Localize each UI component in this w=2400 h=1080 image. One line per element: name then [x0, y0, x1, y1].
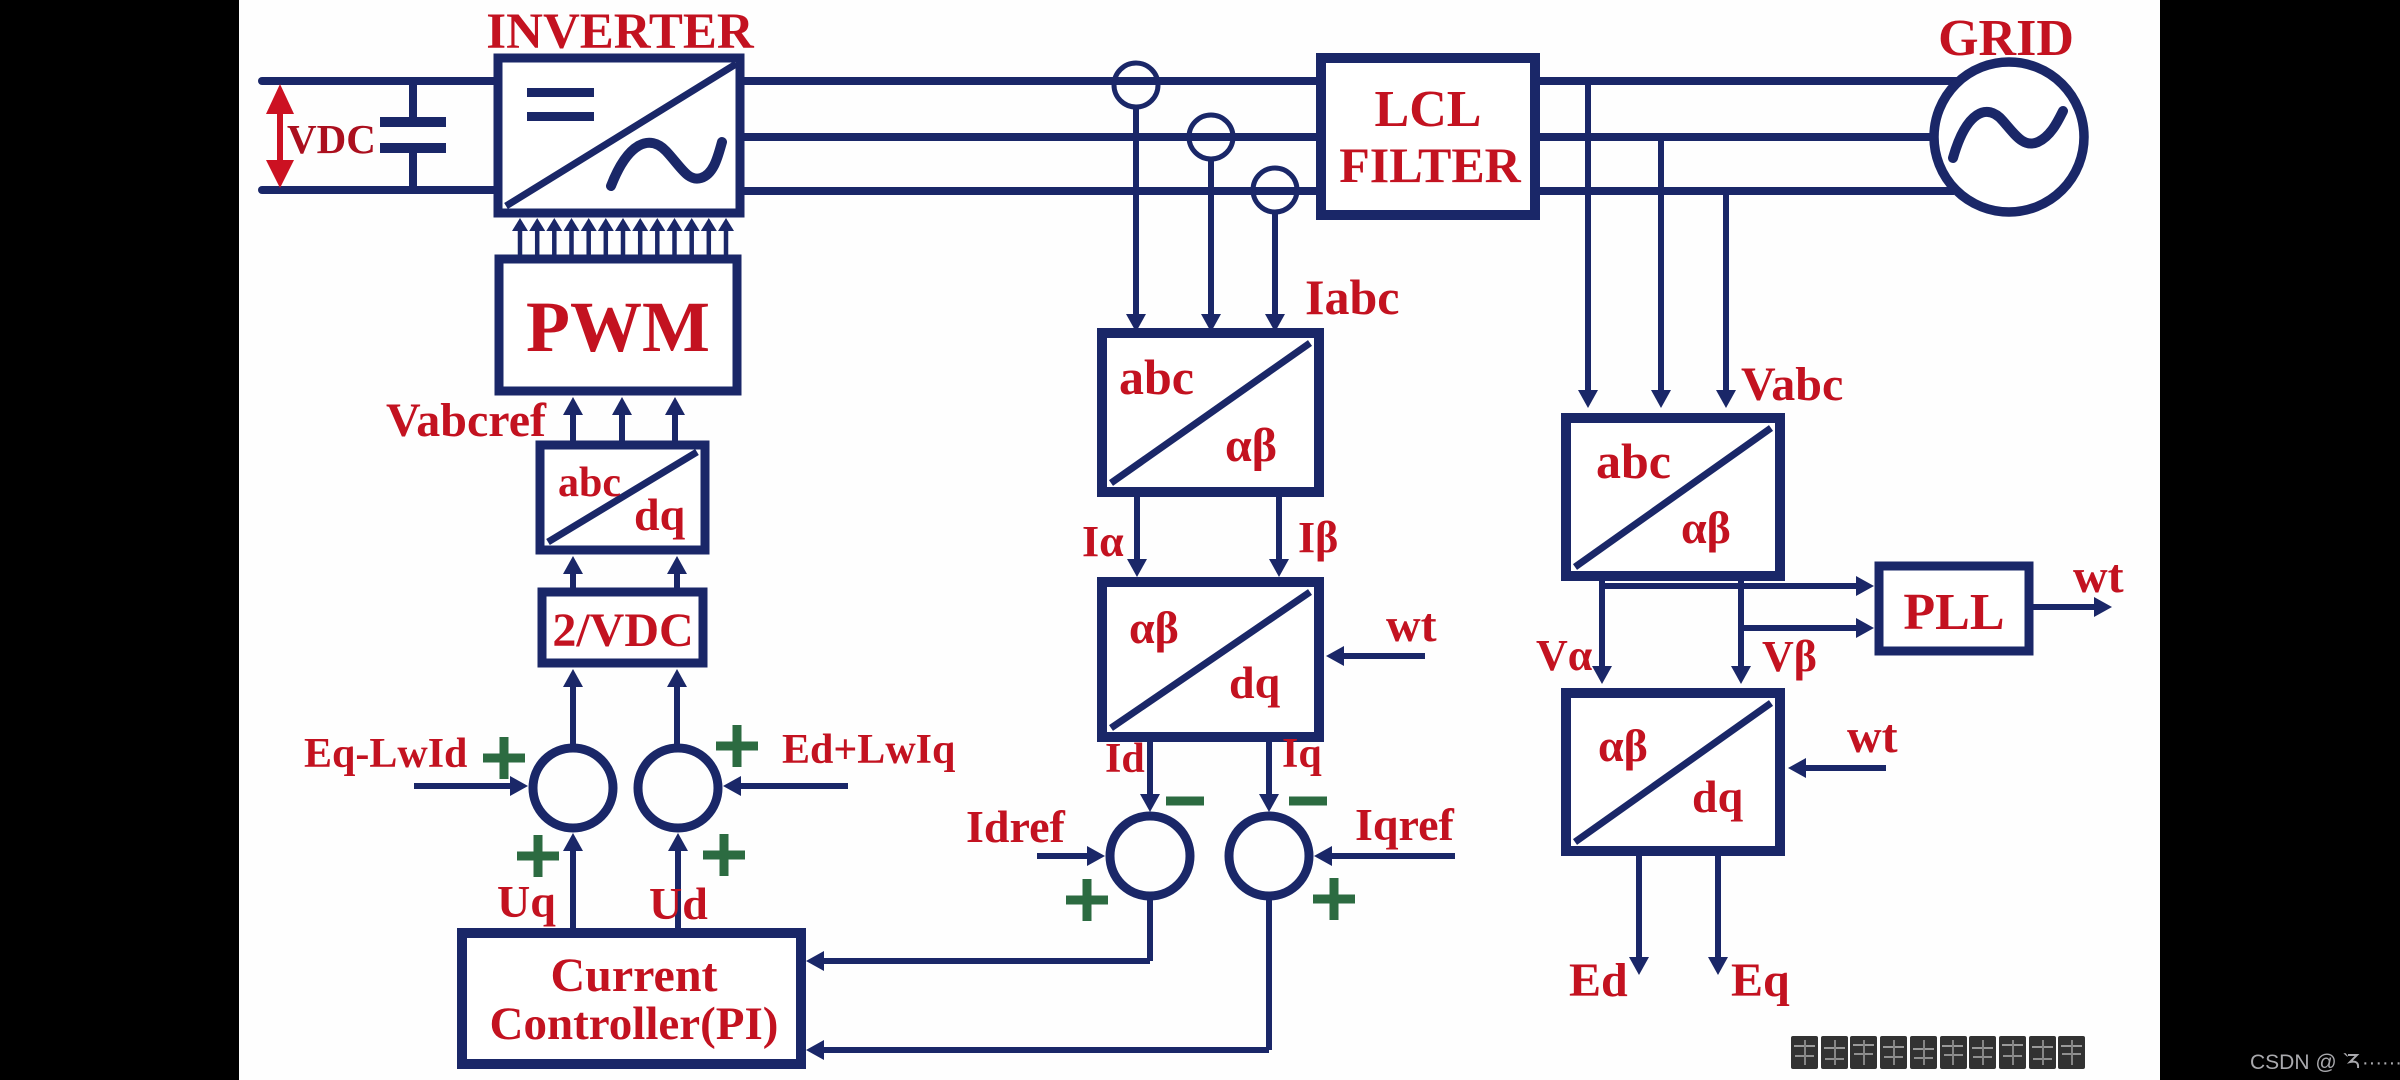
svg-text:abc: abc — [558, 460, 621, 506]
wire: Ic measurement drop to abc/alphabeta — [1265, 212, 1285, 332]
wire: PWM gate drive arrows into inverter — [512, 218, 734, 259]
svg-text:Current: Current — [550, 949, 717, 1002]
svg-text:Controller(PI): Controller(PI) — [490, 998, 779, 1050]
svg-text:Iabc: Iabc — [1305, 269, 1399, 325]
inverter U1 block — [498, 58, 740, 213]
gain block 2/VDC — [542, 592, 703, 663]
node: plus sign at Iqref junction — [1313, 895, 1355, 904]
svg-text:dq: dq — [1692, 771, 1744, 822]
wire: Va tap from phase A bus — [1578, 81, 1598, 408]
svg-text:abc: abc — [1596, 433, 1671, 489]
svg-text:2/VDC: 2/VDC — [552, 604, 693, 657]
current sensor CT1 on phase A — [1114, 63, 1158, 107]
transform block abc to alphabeta (voltage path) — [1566, 418, 1780, 576]
svg-text:Ed+LwIq: Ed+LwIq — [782, 727, 955, 773]
wire: Uq arrow from controller into S1 — [570, 851, 576, 933]
transform block alphabeta to dq (voltage path) — [1566, 693, 1780, 851]
capacitor C dc-link — [380, 81, 446, 191]
wire: Valpha branch to PLL — [1602, 583, 1856, 589]
node: black pillarbox right — [2160, 0, 2400, 1080]
wire: Id error feedback to controller — [806, 896, 1150, 971]
svg-text:wt: wt — [2073, 550, 2124, 603]
node: CSDN watermark glyph blocks (chinese caption) — [1791, 1036, 2085, 1069]
svg-text:FILTER: FILTER — [1339, 137, 1521, 193]
svg-text:INVERTER: INVERTER — [486, 4, 755, 60]
wire: Ibeta arrow — [1276, 492, 1282, 559]
wire: Vbeta arrow down — [1738, 576, 1744, 666]
summing junction S1 (Uq) — [533, 748, 613, 828]
current sensor CT3 on phase C — [1253, 168, 1297, 212]
svg-text:αβ: αβ — [1225, 419, 1277, 472]
summing junction S3 (Idref) — [1110, 816, 1190, 896]
svg-text:Iβ: Iβ — [1298, 513, 1338, 562]
wire: Iq error feedback to controller — [806, 896, 1269, 1060]
wire: Ib measurement drop to abc/alphabeta — [1201, 159, 1221, 332]
node: black pillarbox left — [0, 0, 239, 1080]
wire: phase C bus from inverter to grid — [740, 187, 1954, 195]
current sensor CT2 on phase B — [1189, 115, 1233, 159]
svg-text:Iq: Iq — [1282, 731, 1322, 777]
wire: Idref input arrow — [1037, 853, 1087, 859]
svg-text:wt: wt — [1847, 710, 1898, 763]
PWM block — [499, 259, 737, 391]
wire: wt arrow into voltage dq transform — [1806, 765, 1886, 771]
wire: DC bus positive — [262, 77, 502, 85]
wire: Iq arrow into Iqref junction — [1266, 737, 1272, 794]
svg-text:Eq: Eq — [1731, 954, 1790, 1007]
svg-text:Idref: Idref — [966, 801, 1065, 852]
svg-text:Eq-LwId: Eq-LwId — [304, 731, 467, 777]
wire: arrows from summing junctions to 2/VDC — [563, 669, 687, 744]
node: minus sign at Idref junction — [1166, 797, 1204, 806]
node: plus sign at S2 upper input — [716, 742, 758, 751]
svg-text:dq: dq — [634, 489, 686, 540]
wire: Vc tap from phase C bus — [1716, 191, 1736, 408]
summing junction S4 (Iqref) — [1229, 816, 1309, 896]
wire: Id arrow into Idref junction — [1147, 737, 1153, 794]
svg-text:Vabcref: Vabcref — [386, 394, 547, 447]
wire: Vbeta branch to PLL — [1741, 625, 1856, 631]
svg-text:······: ······ — [2362, 1052, 2400, 1074]
svg-text:PWM: PWM — [526, 287, 710, 367]
wire: Ia measurement drop to abc/alphabeta — [1126, 107, 1146, 332]
svg-text:Vβ: Vβ — [1762, 632, 1817, 681]
wire: wt output arrow from PLL — [2029, 604, 2094, 610]
wire: wt arrow into current dq transform — [1344, 653, 1425, 659]
wire: Eq output arrow — [1715, 851, 1721, 957]
wire: Vb tap from phase B bus — [1651, 137, 1671, 408]
svg-text:Ed: Ed — [1569, 954, 1628, 1007]
svg-text:PLL: PLL — [1903, 584, 2004, 641]
summing junction S2 (Ud) — [638, 748, 718, 828]
wire: arrows from 2/VDC to abc/dq — [563, 556, 687, 592]
node: minus sign at Iqref junction — [1289, 797, 1327, 806]
wire: Ed output arrow — [1636, 851, 1642, 957]
wire: Valpha arrow down — [1599, 576, 1605, 666]
wire: Eq-LwId input arrow into S1 — [414, 783, 510, 789]
wire: DC bus negative — [262, 186, 502, 194]
svg-text:Vα: Vα — [1536, 631, 1593, 680]
Current Controller (PI) block — [462, 933, 801, 1064]
svg-text:Vabc: Vabc — [1741, 358, 1843, 411]
svg-text:VDC: VDC — [287, 116, 376, 162]
svg-text:Iqref: Iqref — [1355, 799, 1454, 850]
svg-text:Ud: Ud — [649, 878, 708, 929]
wire: Iqref input arrow — [1332, 853, 1455, 859]
svg-text:CSDN @ `: CSDN @ ` — [2250, 1051, 2349, 1074]
svg-text:abc: abc — [1119, 349, 1194, 405]
svg-text:αβ: αβ — [1129, 602, 1179, 653]
transform block alphabeta to dq (current path) — [1102, 582, 1319, 737]
node: plus sign at S1 upper input — [483, 754, 525, 763]
svg-text:αβ: αβ — [1681, 502, 1731, 553]
node: plus sign at S1 lower input — [517, 852, 559, 861]
node: plus sign at S2 lower input — [703, 851, 745, 860]
svg-text:Uq: Uq — [497, 876, 556, 927]
wire: phase A bus from inverter to grid — [740, 77, 1958, 85]
svg-text:Id: Id — [1105, 736, 1145, 782]
svg-text:wt: wt — [1386, 599, 1437, 652]
transform block abc to alphabeta (current path) — [1102, 333, 1319, 492]
grid source G1 (AC source circle) — [1934, 62, 2084, 212]
wire: phase B bus from inverter to grid — [740, 133, 1934, 141]
LCL FILTER block — [1321, 58, 1535, 215]
svg-text:αβ: αβ — [1598, 720, 1648, 771]
svg-text:LCL: LCL — [1375, 81, 1482, 138]
transform block abc to dq (left) — [540, 445, 705, 550]
label VDC measurement arrow (red double-headed) — [266, 84, 294, 188]
wire: Ed+LwIq input arrow into S2 — [741, 783, 848, 789]
PLL block — [1879, 566, 2029, 651]
svg-text:dq: dq — [1229, 657, 1281, 708]
svg-text:Iα: Iα — [1082, 517, 1124, 566]
wire: Ud arrow from controller into S2 — [675, 851, 681, 933]
wire: Ialpha arrow — [1134, 492, 1140, 559]
wire: Vabcref arrows from abc/dq to PWM — [563, 397, 685, 445]
node: plus sign at Idref junction — [1066, 896, 1108, 905]
